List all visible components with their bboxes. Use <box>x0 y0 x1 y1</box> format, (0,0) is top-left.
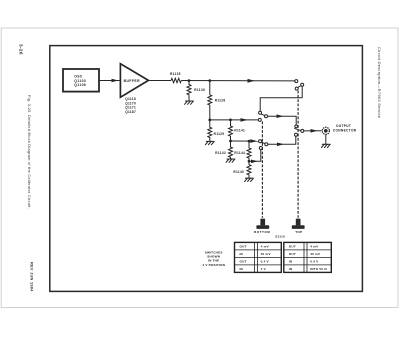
wire OSC to buffer <box>99 80 120 82</box>
schematic border frame <box>50 46 363 292</box>
svg-text:0.4 V: 0.4 V <box>261 259 270 263</box>
oscillator box U-OSC <box>63 69 99 92</box>
arrow R1144 junction wire <box>251 160 258 164</box>
actuator TOP <box>292 219 305 229</box>
output connector stem and ground <box>325 134 327 144</box>
svg-text:3-26: 3-26 <box>18 44 23 55</box>
node R1144 top <box>248 140 251 143</box>
switch contact circles <box>258 80 304 150</box>
wire R1144 junction to switch contact <box>249 150 261 162</box>
arrow on top wire <box>248 79 255 83</box>
output connector symbol <box>322 127 329 134</box>
buffer amp triangle <box>120 64 148 98</box>
svg-text:BUFFER: BUFFER <box>124 79 141 83</box>
svg-text:IN: IN <box>240 252 244 256</box>
svg-text:40 mV: 40 mV <box>310 252 321 256</box>
arrow tap1 wire <box>241 118 248 122</box>
resistor R1129 <box>208 120 212 141</box>
contact B-upper out <box>265 115 268 118</box>
resistor R1142 <box>229 141 233 159</box>
svg-text:INTO 50 Ω: INTO 50 Ω <box>310 267 327 271</box>
resistor R1135 <box>171 78 181 82</box>
resistor R1128 <box>208 81 212 120</box>
table S1110 TOP <box>284 242 332 272</box>
dashed linkage TOP <box>297 91 299 218</box>
wire buffer output <box>148 80 171 82</box>
svg-text:Fig. 3-25. Detailed Block Diag: Fig. 3-25. Detailed Block Diagram of the… <box>27 95 31 209</box>
svg-text:IN: IN <box>289 267 293 271</box>
actuator BOTTOM <box>256 219 269 229</box>
contact T-upper right <box>301 83 304 86</box>
svg-text:OUT: OUT <box>240 244 247 248</box>
svg-text:Circuit Description—R7903 Serv: Circuit Description—R7903 Service <box>377 47 382 119</box>
table S1110 BOTTOM <box>235 242 282 272</box>
switch S1110B arm upper <box>261 114 265 116</box>
contact B-lower left <box>259 140 262 143</box>
svg-text:4 mV: 4 mV <box>310 244 319 248</box>
node R1128 tap <box>208 79 211 82</box>
svg-text:R1141: R1141 <box>234 129 245 133</box>
svg-text:Q1108: Q1108 <box>74 83 86 87</box>
node tap1 <box>208 119 211 122</box>
svg-text:R1135: R1135 <box>170 72 181 76</box>
svg-text:Q1187: Q1187 <box>125 110 136 114</box>
svg-text:0.4 V: 0.4 V <box>310 259 319 263</box>
signal flow arrows <box>112 79 318 163</box>
svg-text:R1128: R1128 <box>215 99 226 103</box>
junction dots <box>188 79 251 163</box>
svg-text:TOP: TOP <box>295 230 302 234</box>
svg-text:IN: IN <box>240 267 244 271</box>
wire from TOP switch to BOTTOM switch upper contact <box>260 86 302 111</box>
switch S1110T arm upper <box>298 86 301 88</box>
contact T-upper moving <box>295 87 298 90</box>
svg-text:BOTTOM: BOTTOM <box>254 230 270 234</box>
node R1144 bottom <box>248 160 251 163</box>
node R1136 tap <box>188 79 191 82</box>
wire bottom-lower output to top moving contact <box>268 136 296 144</box>
ground below R1136 <box>185 101 194 104</box>
svg-text:4 mV: 4 mV <box>261 244 270 248</box>
svg-text:REV JUN 1984: REV JUN 1984 <box>30 262 35 292</box>
svg-text:OUT: OUT <box>289 252 296 256</box>
svg-text:OUT: OUT <box>289 244 296 248</box>
node R1141 bottom <box>229 140 232 143</box>
switch S1110T arm lower <box>294 128 301 130</box>
contact T-lower moving <box>295 133 298 136</box>
svg-text:R1129: R1129 <box>214 132 225 136</box>
ground below R1140 <box>245 178 254 181</box>
arrow bottom-switch lower output <box>277 143 284 147</box>
contact B-lower out <box>265 143 268 146</box>
svg-text:R1136: R1136 <box>194 88 205 92</box>
svg-text:S1110: S1110 <box>275 235 285 239</box>
svg-text:4 V POSITION: 4 V POSITION <box>202 263 225 267</box>
contact top wire end <box>295 80 298 83</box>
wire divider tap2 to switch <box>231 140 259 142</box>
dashed linkage BOTTOM <box>261 122 263 218</box>
arrow bottom-switch upper output <box>277 114 284 118</box>
resistor R1144 <box>247 141 251 161</box>
arrow tap2 wire <box>250 139 257 143</box>
wire to output connector <box>304 130 322 132</box>
ground below R1129 <box>205 141 214 144</box>
wire bottom-switch output to top-switch contact <box>268 116 297 125</box>
contact T-lower top <box>295 125 298 128</box>
svg-text:R1144: R1144 <box>234 151 245 155</box>
svg-text:CONNECTOR: CONNECTOR <box>333 128 357 132</box>
svg-text:R1142: R1142 <box>215 151 226 155</box>
node R1141 top <box>229 119 232 122</box>
arrow OSC to buffer <box>112 79 119 83</box>
svg-text:OUTPUT: OUTPUT <box>336 124 351 128</box>
svg-text:R1140: R1140 <box>233 170 244 174</box>
svg-text:IN: IN <box>289 259 293 263</box>
svg-text:4 V: 4 V <box>261 267 267 271</box>
arrow to output connector <box>311 129 318 133</box>
switch S1110B arm lower <box>261 142 265 144</box>
contact T-lower out <box>301 129 304 132</box>
resistor R1136 <box>187 82 191 101</box>
wire divider tap1 to switch <box>210 119 258 121</box>
contact B-upper bottom <box>258 118 261 121</box>
contact B-lower bottom <box>259 147 262 150</box>
resistor R1140 <box>247 161 251 178</box>
resistor R1141 <box>229 120 233 141</box>
svg-text:40 mV: 40 mV <box>261 252 272 256</box>
contact B-upper top <box>259 111 262 114</box>
wire to switch contact <box>181 80 294 82</box>
switch position note <box>202 250 225 266</box>
ground below R1142 <box>226 159 235 162</box>
svg-text:OUT: OUT <box>240 259 247 263</box>
